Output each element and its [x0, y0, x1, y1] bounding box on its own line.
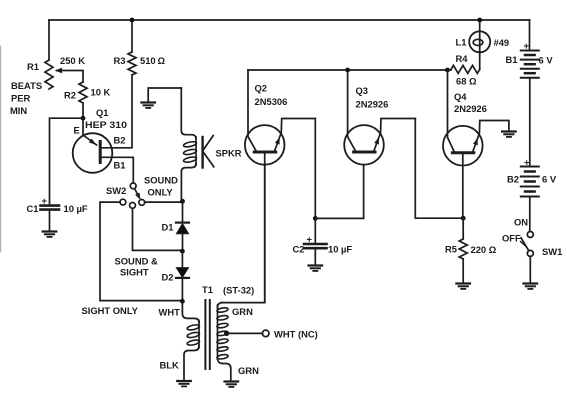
svg-text:PER: PER [11, 93, 31, 104]
lamp L1 #49 [479, 52, 481, 69]
wire Q4 emitter to ground [473, 121, 509, 152]
switch SW2 pole [130, 183, 136, 189]
resistor R3 510ohm [128, 52, 136, 75]
svg-text:B2: B2 [114, 135, 126, 146]
svg-text:HEP 310: HEP 310 [85, 119, 127, 130]
svg-text:L1: L1 [456, 37, 467, 48]
svg-text:250 K: 250 K [60, 55, 85, 66]
svg-text:Q1: Q1 [96, 107, 109, 118]
svg-text:B1: B1 [506, 54, 518, 65]
node R5 junction [461, 216, 466, 221]
wire into T1 primary [182, 301, 199, 322]
node C2 junction [314, 119, 316, 219]
svg-text:C2: C2 [293, 244, 305, 255]
transistor Q2 2N5306 [245, 125, 285, 165]
transistor Q4 2N2926 [443, 126, 483, 166]
svg-text:10 K: 10 K [91, 87, 111, 98]
svg-text:E: E [74, 125, 80, 136]
diode D2 [181, 251, 183, 268]
svg-text:SPKR: SPKR [216, 148, 242, 159]
ground GRN bottom [225, 380, 239, 382]
svg-text:+: + [307, 234, 313, 245]
node D1-D2 junction [180, 249, 185, 254]
diode D1 [176, 222, 189, 224]
wire Q4 collector [448, 70, 455, 152]
wire sound-only contact to D1 node [145, 201, 183, 203]
svg-text:2N2926: 2N2926 [356, 99, 389, 110]
resistor R5 220ohm [462, 218, 464, 239]
wire B1 to B2 [529, 78, 531, 166]
wire Q2 base down [264, 152, 266, 303]
transformer T1 secondary coil [218, 303, 223, 308]
svg-text:68 Ω: 68 Ω [456, 76, 477, 87]
wire Q2 emitter [275, 119, 316, 151]
svg-text:#49: #49 [494, 37, 510, 48]
node E junction [81, 116, 86, 121]
transformer T1 primary coil [198, 321, 200, 348]
wire C1 to ground [49, 211, 51, 232]
svg-text:6 V: 6 V [542, 174, 557, 185]
svg-text:6 V: 6 V [539, 55, 554, 66]
svg-text:GRN: GRN [232, 306, 253, 317]
node spkr bottom junction [180, 199, 185, 204]
svg-text:ON: ON [514, 217, 528, 228]
wire left drop to R1 [48, 20, 50, 60]
svg-text:R2: R2 [64, 90, 76, 101]
wire sound-and-sight contact down [133, 208, 183, 250]
resistor R1 250K potentiometer [45, 60, 53, 89]
wire secondary top to Q2 base [222, 165, 265, 303]
svg-text:T1: T1 [202, 284, 213, 295]
svg-text:10 µF: 10 µF [64, 203, 88, 214]
svg-text:WHT: WHT [159, 307, 181, 318]
transformer T1 core [204, 300, 206, 369]
svg-text:D1: D1 [162, 222, 174, 233]
wire Q3 emitter [374, 119, 415, 151]
wire to Q3 base [315, 165, 363, 218]
wire spkr top to ground [148, 88, 181, 102]
OFF pointer tick [521, 242, 526, 246]
wire Q3 collector [348, 70, 356, 151]
svg-text:SIGHT: SIGHT [120, 267, 149, 278]
svg-text:R4: R4 [456, 53, 469, 64]
wiper arrow of R1 [57, 71, 83, 83]
wire top supply rail [49, 19, 530, 21]
svg-text:2N5306: 2N5306 [255, 96, 288, 107]
switch SW1 bottom contact [527, 250, 533, 256]
svg-text:Q2: Q2 [255, 83, 268, 94]
svg-text:WHT (NC): WHT (NC) [274, 329, 318, 340]
wire emitter lead Q1 [83, 118, 97, 145]
scan edge artifact left border [0, 46, 2, 252]
wire Q4 base down [462, 153, 464, 218]
wire junction to C1 [50, 118, 84, 203]
node center tap [224, 331, 229, 336]
terminal WHT NC [262, 330, 269, 337]
wire Q3 emitter down to R5 node [415, 119, 463, 219]
svg-text:D2: D2 [162, 272, 174, 283]
ground near R3 [141, 101, 155, 103]
transistor Q1 HEP310 UJT [73, 133, 113, 173]
battery B1 6V [521, 50, 539, 52]
switch SW1 top contact [527, 232, 533, 238]
wire B2 to SW1 [529, 197, 531, 232]
wire base2 lead Q1 to R3 [100, 75, 132, 148]
svg-text:Q4: Q4 [454, 91, 467, 102]
svg-text:510 Ω: 510 Ω [140, 55, 166, 66]
svg-text:SOUND &: SOUND & [115, 256, 158, 267]
contact sight-only [120, 199, 126, 205]
svg-text:GRN: GRN [238, 365, 259, 376]
svg-text:ONLY: ONLY [148, 187, 174, 198]
wire down to speaker coil [181, 88, 196, 139]
svg-text:OFF: OFF [502, 233, 521, 244]
svg-text:B2: B2 [507, 174, 519, 185]
speaker bar and cone [201, 137, 203, 168]
svg-text:SIGHT ONLY: SIGHT ONLY [82, 305, 139, 316]
svg-text:2N2926: 2N2926 [454, 103, 487, 114]
resistor R4 68ohm [451, 65, 480, 73]
svg-text:(ST-32): (ST-32) [223, 285, 254, 296]
wire Q2 collector [248, 70, 256, 151]
wire center tap to NC [227, 332, 263, 334]
node Q3 collector [345, 68, 350, 73]
svg-text:MIN: MIN [10, 105, 27, 116]
svg-text:10 µF: 10 µF [328, 244, 352, 255]
svg-text:R1: R1 [27, 61, 39, 72]
svg-text:+: + [524, 40, 530, 51]
wire collector rail [248, 69, 451, 71]
svg-text:BLK: BLK [160, 360, 179, 371]
wire to D1 [182, 201, 184, 222]
svg-text:SOUND: SOUND [144, 175, 178, 186]
node WHT junction [180, 299, 185, 304]
svg-text:+: + [42, 195, 48, 206]
svg-text:220 Ω: 220 Ω [471, 244, 497, 255]
svg-text:B1: B1 [114, 160, 126, 171]
resistor R2 10K [79, 82, 87, 103]
contact sound-only [139, 200, 145, 206]
svg-text:R5: R5 [445, 244, 457, 255]
switch SW2 arm [135, 189, 140, 198]
switch SW1 arm [521, 238, 529, 251]
svg-text:C1: C1 [27, 203, 39, 214]
speaker SPKR coil [195, 137, 197, 165]
battery B2 6V [521, 166, 539, 168]
wire sight-only contact left and down [100, 202, 182, 301]
wire base1 lead Q1 to SW2 [100, 157, 133, 183]
wire top rail to B1 [529, 20, 531, 50]
svg-text:+: + [524, 157, 530, 168]
ground Q4 emitter [502, 130, 516, 132]
svg-text:SW2: SW2 [106, 185, 126, 196]
svg-text:BEATS: BEATS [11, 80, 42, 91]
transistor Q3 2N2926 [344, 125, 384, 165]
capacitor C2 10uF [314, 218, 316, 243]
ground BLK [177, 380, 191, 382]
node Q4 collector / R4 [445, 68, 450, 73]
contact sound-and-sight [130, 203, 136, 209]
svg-text:SW1: SW1 [542, 246, 562, 257]
capacitor C1 10uF [41, 204, 60, 207]
svg-text:Q3: Q3 [356, 85, 369, 96]
wire SW1 to ground [529, 256, 531, 283]
svg-text:R3: R3 [114, 55, 126, 66]
ground C1 [43, 230, 57, 232]
